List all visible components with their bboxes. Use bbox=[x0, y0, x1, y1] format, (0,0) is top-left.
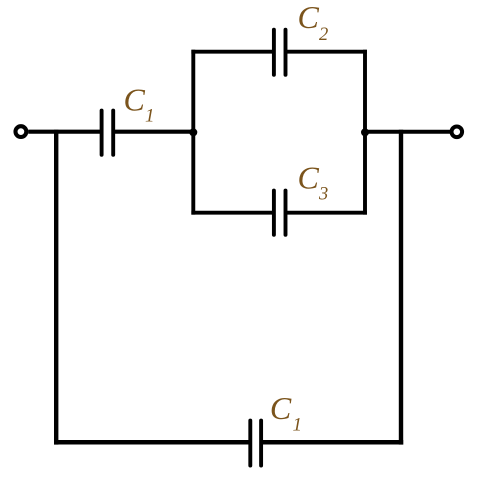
capacitor C3 bbox=[274, 191, 286, 235]
label C1 (top) bbox=[124, 82, 155, 127]
capacitor C1 (bottom) bbox=[250, 421, 261, 466]
label C3 bbox=[298, 159, 329, 204]
node B (right junction) bbox=[361, 128, 369, 136]
label C2 bbox=[298, 0, 329, 45]
capacitor C1 bbox=[102, 111, 114, 155]
svg-text:3: 3 bbox=[318, 185, 328, 205]
node A (left junction) bbox=[189, 128, 197, 136]
capacitor C2 bbox=[274, 30, 286, 75]
wire right node to right terminal bbox=[363, 130, 450, 134]
svg-text:1: 1 bbox=[145, 106, 155, 127]
wire left outer vertical bbox=[54, 130, 58, 445]
terminal right bbox=[452, 127, 463, 138]
wire top branch left segment bbox=[191, 50, 274, 54]
wire bottom right segment bbox=[261, 440, 403, 445]
wire left terminal to C1 left plate bbox=[28, 130, 101, 134]
wire left branch vertical (box left side) bbox=[191, 50, 195, 215]
svg-text:C: C bbox=[298, 0, 320, 35]
svg-text:C: C bbox=[270, 390, 292, 426]
terminal left bbox=[16, 126, 27, 137]
wire bottom branch right segment bbox=[286, 211, 367, 215]
svg-text:C: C bbox=[298, 159, 320, 195]
svg-text:C: C bbox=[124, 82, 146, 118]
svg-text:2: 2 bbox=[319, 25, 328, 45]
wire right branch vertical (box right side) bbox=[363, 50, 367, 215]
wire C1 right plate to left node bbox=[113, 130, 195, 134]
svg-text:1: 1 bbox=[293, 415, 303, 436]
wire top branch right segment bbox=[286, 50, 367, 54]
label C1 (bottom) bbox=[270, 390, 302, 435]
wire bottom left segment bbox=[54, 440, 250, 445]
wire right outer vertical bbox=[399, 130, 403, 445]
wire bottom branch left segment bbox=[191, 211, 274, 215]
